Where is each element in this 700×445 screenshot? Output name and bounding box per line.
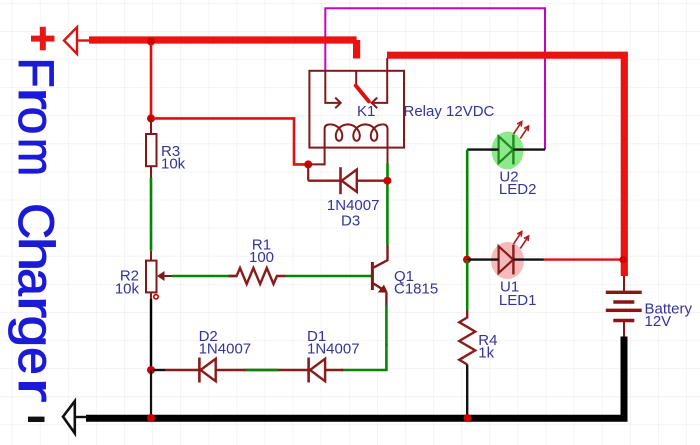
relay K1 box	[309, 71, 404, 148]
svg-text:Relay 12VDC: Relay 12VDC	[404, 103, 495, 120]
svg-text:10k: 10k	[115, 280, 140, 297]
port arrow From Charger -	[63, 401, 88, 433]
wire green R3 to R2	[150, 178, 153, 251]
port arrow From Charger +	[64, 27, 90, 54]
wire thick red top (charger + to relay common)	[89, 40, 357, 59]
relay NC contact	[325, 71, 340, 108]
junction dot on + rail	[147, 38, 155, 46]
svg-text:1N4007: 1N4007	[307, 341, 360, 358]
svg-text:a: a	[8, 268, 64, 296]
svg-text:LED1: LED1	[499, 292, 537, 309]
potentiometer R2	[115, 251, 172, 299]
svg-text:12V: 12V	[645, 313, 672, 330]
wire black D2 to junction	[153, 369, 166, 371]
svg-text:e: e	[8, 347, 64, 375]
svg-text:C1815: C1815	[394, 281, 438, 298]
svg-text:1k: 1k	[478, 345, 494, 362]
wire coil junction down to D3	[307, 164, 309, 180]
node diode chain junction	[147, 366, 155, 374]
wire green Q1 emitter down	[385, 305, 388, 346]
wire D1 to D2	[244, 369, 308, 371]
relay NO contact	[372, 71, 388, 108]
label From Charger	[8, 57, 65, 402]
resistor R1	[229, 237, 286, 285]
wire green LED junction to R4	[466, 260, 469, 310]
diode D1	[307, 328, 360, 383]
resistor R3	[146, 120, 186, 178]
LED U1	[499, 232, 537, 309]
node coil right junction	[383, 177, 391, 185]
wire black R2 to ground rail	[150, 299, 152, 370]
node coil left junction	[304, 160, 312, 168]
svg-text:1N4007: 1N4007	[199, 341, 252, 358]
LED U2	[490, 122, 537, 199]
node ground R4	[464, 414, 472, 422]
wire red to R3	[150, 43, 153, 118]
svg-text:1N4007: 1N4007	[327, 197, 380, 214]
relay pin leads below	[310, 148, 388, 182]
svg-text:D3: D3	[341, 212, 360, 229]
node battery wire junction	[619, 256, 626, 263]
wire green Q1 collector to coil	[386, 182, 389, 245]
svg-text:C: C	[8, 203, 64, 239]
LED U2 glow	[492, 132, 524, 170]
wire black LED1 right	[513, 258, 544, 260]
minus terminal label	[28, 417, 45, 422]
svg-text:r: r	[8, 378, 64, 403]
wire black LED2 left	[467, 148, 498, 150]
wire green R2 wiper to R1	[172, 275, 237, 278]
wire emitter to diode chain	[341, 344, 386, 370]
wire magenta net (relay NC to LED2 cathode)	[325, 8, 545, 149]
node ground R2	[147, 414, 155, 422]
wire thick red relay NO to battery +	[387, 55, 624, 276]
wire black LED2 right to magenta	[513, 148, 545, 150]
svg-text:10k: 10k	[161, 156, 186, 173]
battery BT	[606, 276, 693, 337]
relay NO pin lead	[386, 58, 388, 71]
LED U1 glow	[491, 242, 524, 279]
wire red LED1 to battery	[544, 258, 621, 260]
diode D3	[308, 167, 387, 229]
transistor Q1	[372, 245, 438, 305]
resistor R4	[459, 310, 497, 365]
svg-text:g: g	[8, 316, 64, 348]
wire red junction to relay coil	[153, 118, 306, 164]
wire thick black battery - to bottom rail	[86, 337, 624, 419]
svg-text:100: 100	[249, 249, 274, 266]
wire green LED2 to LED1 junction	[466, 150, 469, 260]
svg-text:m: m	[8, 138, 63, 176]
svg-text:F: F	[8, 57, 64, 88]
svg-text:o: o	[8, 107, 64, 135]
svg-text:h: h	[8, 237, 64, 272]
relay common pole and blade	[356, 71, 369, 102]
relay coil	[325, 124, 388, 147]
wire black junction down to bottom rail	[150, 370, 152, 418]
svg-text:LED2: LED2	[499, 181, 537, 198]
diode D2	[166, 328, 251, 383]
plus terminal label	[31, 27, 55, 51]
wire black LED1 left	[467, 258, 499, 260]
node R3 top junction	[147, 114, 155, 122]
wire green R1 to Q1 base	[285, 275, 371, 278]
node LED1 junction	[463, 256, 471, 264]
wire black R4 to bottom rail	[466, 365, 468, 419]
svg-text:K1: K1	[357, 103, 375, 120]
